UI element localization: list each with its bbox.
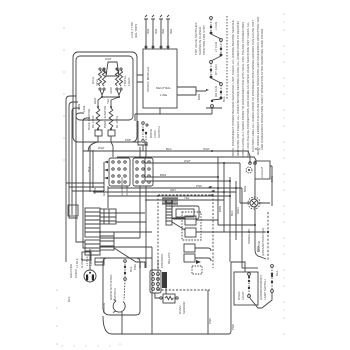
connector grid P2 <box>133 158 153 186</box>
svg-text:BRN: BRN <box>197 94 201 100</box>
wire WHT main line <box>83 151 250 163</box>
wire spark module outputs <box>177 87 206 95</box>
svg-text:AND DANGEROUS OPERATION VERIFY: AND DANGEROUS OPERATION VERIFY OPERATION… <box>260 29 264 150</box>
svg-text:LAMP SWITCH: LAMP SWITCH <box>263 279 267 300</box>
power plug outlet <box>84 249 103 282</box>
svg-text:N WHT: N WHT <box>80 258 84 268</box>
svg-text:BRN: BRN <box>218 206 222 212</box>
svg-text:RELAYS: RELAYS <box>167 252 171 264</box>
wire hbus lines mid <box>117 157 256 163</box>
wire ignitor drops <box>88 142 113 157</box>
artifact dots column <box>283 13 285 335</box>
svg-text:BLK: BLK <box>230 210 234 216</box>
svg-text:IGN: IGN <box>161 29 165 34</box>
svg-text:YEL: YEL <box>184 196 190 200</box>
label notes column block <box>231 17 264 157</box>
svg-text:CONN CLOSE ALL WIRES PRIOR TO: CONN CLOSE ALL WIRES PRIOR TO DISCONNECT… <box>241 22 245 157</box>
svg-text:L/MAIN: L/MAIN <box>102 303 106 313</box>
svg-text:LINE: LINE <box>160 93 167 97</box>
wire right vertical brn <box>270 166 272 206</box>
svg-text:RR FAN: RR FAN <box>214 86 218 97</box>
svg-text:BRN: BRN <box>270 176 274 182</box>
svg-text:BL 375W: BL 375W <box>115 116 119 128</box>
svg-text:GRY: GRY <box>170 188 176 192</box>
wire center vertical drops <box>218 157 242 268</box>
svg-text:POSITION FOR STBY: POSITION FOR STBY <box>202 25 206 55</box>
wire x208 vertical <box>207 290 209 334</box>
svg-text:A/LIGHT: A/LIGHT <box>260 166 264 178</box>
svg-text:PRP: PRP <box>125 138 131 142</box>
relay box 1 <box>185 216 196 225</box>
latch dashed component <box>192 266 202 274</box>
svg-text:ORN: ORN <box>236 207 240 214</box>
svg-text:CLOCK: CLOCK <box>125 186 129 196</box>
svg-text:BLK: BLK <box>166 147 172 151</box>
door actuated switch chain <box>124 260 127 300</box>
top valve BR box <box>106 62 119 76</box>
svg-text:PNK: PNK <box>208 318 212 324</box>
svg-text:34VA: 34VA <box>95 79 99 86</box>
relay box 4 <box>184 254 195 262</box>
wire lamp chain down <box>267 212 269 260</box>
svg-text:BLK: BLK <box>138 262 142 268</box>
svg-text:PNK: PNK <box>196 184 202 188</box>
wire bus to connectors <box>66 183 104 191</box>
svg-text:PNK: PNK <box>133 264 137 270</box>
svg-text:LT FAN: LT FAN <box>214 42 218 52</box>
comb connector rows <box>162 198 178 204</box>
clock display box <box>172 206 199 219</box>
maintop burner box inner <box>76 56 133 120</box>
wire bottom long <box>103 262 231 334</box>
wire x152 vertical <box>151 247 153 334</box>
wire door lock to P2 <box>140 145 146 158</box>
relay box 3 <box>184 244 195 252</box>
svg-text:WHT: WHT <box>203 147 210 151</box>
svg-text:LINE: LINE <box>82 105 86 112</box>
svg-text:YEL: YEL <box>106 98 110 104</box>
svg-text:BRN: BRN <box>93 188 97 194</box>
svg-text:IGN: IGN <box>169 29 173 34</box>
svg-text:WHT: WHT <box>98 146 105 150</box>
wire long hline under module <box>135 114 212 121</box>
broil ignitor box <box>108 130 115 136</box>
svg-text:WHT: WHT <box>105 57 112 61</box>
wires ladder right <box>100 213 152 247</box>
wire valve bottoms junctions <box>100 90 121 97</box>
svg-text:SPARK MODULE: SPARK MODULE <box>146 66 150 92</box>
svg-text:L FAN: L FAN <box>214 22 218 30</box>
oven control dashed box <box>158 195 213 290</box>
svg-text:CONTROL: CONTROL <box>160 253 164 268</box>
svg-text:SWITCH: SWITCH <box>157 126 161 138</box>
wire ignitor tops <box>98 97 119 107</box>
resistor broil ignitor <box>110 106 112 108</box>
svg-text:SEAL COX PLEASE CONNECTORS AND: SEAL COX PLEASE CONNECTORS AND FRAME AS … <box>246 22 250 157</box>
wire neutral bottom <box>159 108 161 114</box>
wire ignitor top leads <box>146 19 168 49</box>
svg-text:BRN: BRN <box>77 104 81 110</box>
wire box to valves <box>102 68 119 74</box>
svg-text:BRN: BRN <box>160 173 166 177</box>
svg-text:SERVICING UNIT CHECK ALL WIRES: SERVICING UNIT CHECK ALL WIRES BEFORE RE… <box>236 21 240 156</box>
maintop burner box outer <box>73 52 137 142</box>
svg-text:GRN GRD: GRN GRD <box>69 264 73 278</box>
connector circles bottom <box>150 270 161 293</box>
lock assembly rounded box <box>103 258 140 315</box>
svg-text:LIGHT: LIGHT <box>241 291 245 300</box>
dark block <box>162 272 167 288</box>
svg-text:BLK: BLK <box>222 96 226 102</box>
svg-text:ELECTRONIC: ELECTRONIC <box>120 177 124 196</box>
resistor bake ignitor <box>97 106 99 108</box>
worklite lamp switch chain <box>262 265 273 308</box>
svg-text:IGN: IGN <box>154 29 158 34</box>
svg-text:SWITCH: SWITCH <box>113 288 117 300</box>
svg-text:BRN: BRN <box>243 186 247 192</box>
svg-text:L1 BLK: L1 BLK <box>75 258 79 268</box>
door lock switch <box>125 121 148 151</box>
svg-text:110VA: 110VA <box>127 77 131 86</box>
wire hbus into control <box>93 188 242 200</box>
oven light switch box <box>231 262 262 308</box>
svg-text:120V: 120V <box>89 259 93 266</box>
connector grid P1 <box>109 158 130 186</box>
svg-text:WORKLITE: WORKLITE <box>247 228 251 244</box>
svg-text:NEUTRAL: NEUTRAL <box>156 86 171 90</box>
svg-text:BROIL IGNITOR: BROIL IGNITOR <box>103 106 107 128</box>
svg-text:3400: 3400 <box>109 87 113 94</box>
lock cam <box>113 300 125 335</box>
svg-text:SENSOR: SENSOR <box>182 301 186 314</box>
svg-text:NOTE: DISCONNECT POWER BEFORE: NOTE: DISCONNECT POWER BEFORE SERVICING … <box>231 20 235 156</box>
svg-text:RED: RED <box>93 98 97 104</box>
spark module box <box>143 49 177 108</box>
bake ignitor box <box>95 130 102 136</box>
wire x240 drop <box>239 163 241 203</box>
svg-text:GRY: GRY <box>102 190 106 196</box>
wire module-left links <box>137 75 143 82</box>
svg-text:WHT: WHT <box>184 159 191 163</box>
svg-text:BLK: BLK <box>87 166 91 172</box>
small box left <box>68 205 78 216</box>
wire left bus vertical lines <box>65 100 67 262</box>
lamp2 oven lamp <box>240 179 270 209</box>
resistor valve pair left <box>99 68 101 70</box>
svg-text:PNP: PNP <box>231 324 235 330</box>
oven sensor <box>155 288 178 303</box>
svg-text:IGN: IGN <box>146 29 150 34</box>
svg-text:CAUTION LABEL ALL WIRES PRIOR: CAUTION LABEL ALL WIRES PRIOR TO DISCONN… <box>251 20 255 152</box>
relay box 2 <box>185 228 196 237</box>
wire lamp2 drop and link <box>218 206 273 278</box>
wire arrows into P1 <box>104 161 108 179</box>
svg-text:BK 375W: BK 375W <box>91 115 95 128</box>
wire bends from maintop cluster to bus <box>66 96 76 100</box>
wires inside board <box>195 220 224 261</box>
relay sub dashed <box>182 212 201 240</box>
wire ignitor leads <box>98 136 111 142</box>
svg-text:IGN-TOPS: IGN-TOPS <box>134 24 138 38</box>
svg-text:CORD: CORD <box>74 269 78 278</box>
wire left ladder terminal block <box>85 208 116 255</box>
hatch ladder component <box>166 200 172 225</box>
small mid box <box>100 232 114 250</box>
wire arrowheads into board <box>208 186 215 196</box>
resistor valve pair right <box>116 68 118 70</box>
svg-text:(CONVECTION FAN): (CONVECTION FAN) <box>261 228 265 256</box>
top valve switches chain <box>206 16 227 114</box>
svg-text:BLK: BLK <box>275 270 279 276</box>
junction dots <box>211 150 237 197</box>
svg-text:RT FAN: RT FAN <box>214 65 218 75</box>
svg-text:BLK: BLK <box>67 296 71 302</box>
lamp1 A/LIGHT <box>246 161 270 179</box>
